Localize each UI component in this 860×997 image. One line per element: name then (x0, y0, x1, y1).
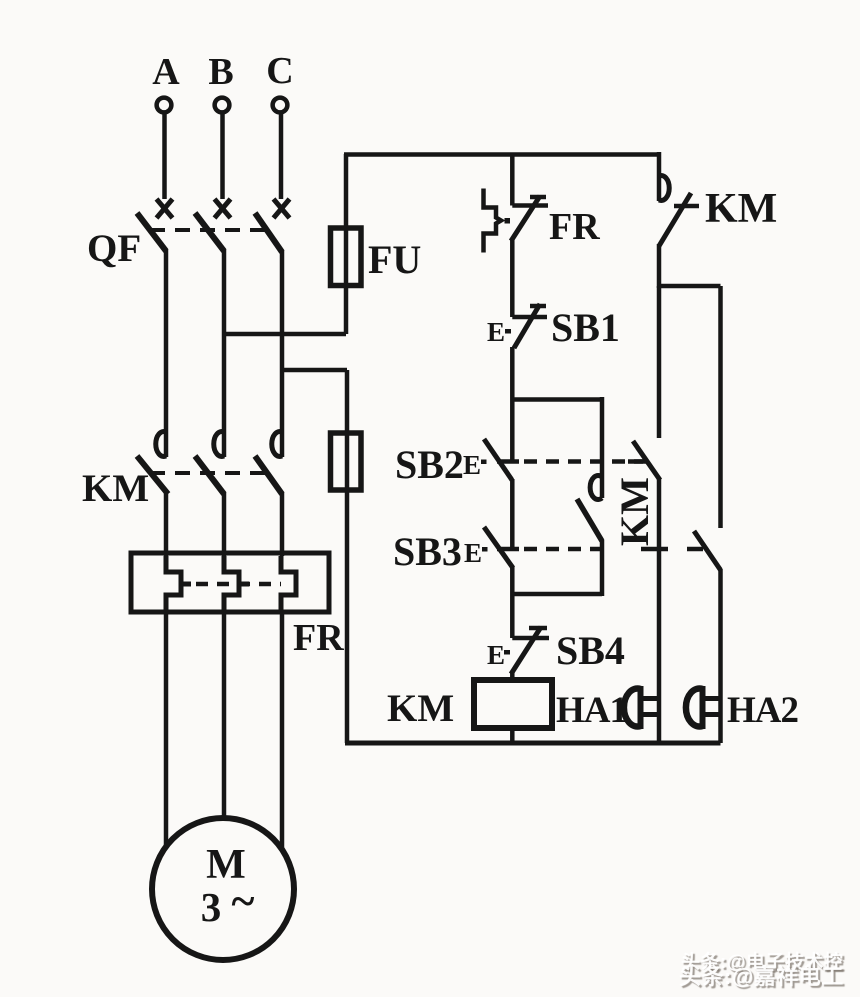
top control rail (344, 152, 659, 157)
wire KM pole A to FR box (164, 492, 169, 556)
wire FR to motor phase C (280, 612, 285, 848)
svg-text:SB3: SB3 (393, 529, 462, 574)
FR heater element pole A (166, 556, 181, 612)
motor M circle (152, 818, 294, 960)
SB3 mechanical dashed link (524, 547, 612, 552)
svg-text:E: E (487, 640, 505, 670)
blade tick (529, 626, 547, 631)
svg-text:SB1: SB1 (551, 305, 620, 350)
KM main contact hook pole A (156, 432, 166, 457)
terminal B circle (215, 98, 230, 113)
svg-text:3: 3 (201, 884, 222, 930)
wire SB3 to SB4 (510, 567, 515, 638)
blade (511, 627, 541, 674)
svg-text:FR: FR (549, 206, 600, 248)
watermark line 2 (679, 959, 844, 991)
svg-text:SB2: SB2 (395, 442, 464, 487)
FU fuse box (331, 228, 362, 286)
wire KM pole B to FR box (222, 492, 227, 556)
KM no.1 contact top right: wire from rail (657, 152, 662, 201)
SB4 button (NC) (487, 627, 549, 674)
blade tick (530, 195, 546, 200)
wire B terminal to QF (220, 112, 225, 199)
KM no.1 blade tick (674, 204, 699, 209)
wire FR contact to SB1 (510, 240, 515, 317)
parallel branch right vertical lower (600, 540, 605, 596)
KM mechanical link dashed line (150, 471, 266, 475)
wire KM coil to bottom rail (510, 728, 515, 743)
control fuse box (331, 433, 362, 490)
wire KM pole C to FR box (280, 492, 285, 556)
SB2 start button (NO) (463, 439, 519, 480)
motor label M 3~ (201, 842, 255, 930)
svg-text:B: B (208, 51, 233, 93)
bottom control rail (345, 741, 721, 746)
KM aux blade (branch) (577, 499, 602, 541)
SB3 link crossing solid segment (641, 547, 668, 552)
wire A terminal to QF (162, 112, 167, 199)
svg-text:C: C (266, 50, 293, 92)
wire x659 down to KM no.2 (657, 286, 662, 438)
wire QF pole B down to KM (222, 249, 227, 457)
blade (511, 196, 540, 241)
KM no.3 blade (694, 531, 721, 570)
svg-text:~: ~ (232, 877, 255, 926)
FR thermal overload box (131, 553, 329, 612)
wire FR to motor phase B (222, 612, 227, 820)
KM main blade pole C (255, 456, 282, 494)
watermark line 1 (681, 947, 843, 974)
SB3 button (NO) (464, 527, 519, 568)
svg-text:SB4: SB4 (556, 628, 625, 673)
terminal A circle (157, 98, 172, 113)
wire C terminal to QF (279, 112, 284, 199)
FR control contact (NC) (484, 189, 549, 253)
svg-text:E: E (487, 317, 505, 347)
seat tick (497, 459, 519, 464)
HA2 bell (686, 686, 720, 729)
svg-text:E: E (463, 450, 481, 480)
blade tick (530, 304, 546, 309)
FU fuse wire from top rail (344, 154, 349, 334)
QF blade pole C (255, 213, 282, 252)
HA1 bell (624, 686, 659, 729)
wire QF pole C down to KM (280, 250, 285, 457)
wire KM no.1 to jog (657, 244, 662, 288)
FR heater element pole C (281, 556, 296, 612)
parallel branch top wire (512, 397, 602, 402)
wire tap phase B to FU (control feed) (224, 332, 346, 337)
svg-text:KM: KM (612, 477, 657, 546)
thermal release bracket (484, 189, 502, 253)
terminal C circle (273, 98, 288, 113)
QF blade pole A (137, 213, 166, 251)
KM main contact hook pole B (214, 432, 224, 457)
SB2 mechanical dashed link (524, 459, 648, 464)
wire SB2 to SB3 (510, 479, 515, 549)
wire QF pole A down to KM (164, 249, 169, 457)
svg-text:HA2: HA2 (727, 690, 798, 731)
wire tap phase C to control fuse (282, 368, 347, 373)
seat tick (497, 547, 519, 552)
svg-text:KM: KM (387, 687, 454, 730)
QF blade pole B (195, 213, 224, 251)
QF mechanical link dashed line (150, 228, 266, 232)
wire KM no.2 down to HA1 (657, 479, 662, 743)
seat (512, 203, 548, 208)
KM no.2 blade (633, 441, 660, 480)
wire SB1 to branch top (510, 347, 515, 462)
svg-text:E: E (464, 538, 482, 568)
breaker cross mark pole A (157, 199, 173, 218)
KM no.1 hook (659, 176, 669, 201)
KM main blade pole B (195, 456, 224, 494)
svg-text:FR: FR (293, 617, 344, 659)
KM main blade pole A (137, 456, 168, 494)
KM aux hook (branch) (590, 476, 602, 500)
FR heater mechanical dashed link (196, 582, 281, 587)
svg-text:QF: QF (87, 227, 141, 270)
blade (484, 527, 513, 568)
control branch main vertical upper (510, 154, 515, 206)
svg-text:A: A (152, 51, 180, 93)
KM main contact hook pole C (272, 431, 282, 456)
KM no.2 blade tick (628, 459, 643, 464)
seat (512, 636, 549, 641)
breaker cross mark pole C (274, 199, 290, 218)
KM coil box (474, 680, 552, 728)
svg-text:KM: KM (82, 467, 149, 510)
wire x720 down to KM no.3 (718, 286, 723, 528)
KM no.1 blade (659, 193, 691, 246)
wire SB4 into KM coil (510, 672, 515, 681)
parallel branch right vertical upper (600, 397, 605, 498)
breaker cross mark pole B (215, 199, 231, 218)
blade (484, 439, 512, 480)
jog horizontal wire (659, 284, 721, 289)
wire KM no.3 down to HA2 (718, 569, 723, 743)
SB1 stop button (NC) (487, 304, 547, 348)
svg-text:HA1: HA1 (556, 690, 627, 731)
FR heater element pole B (224, 556, 239, 612)
blade (514, 304, 540, 348)
KM no.3 blade tick (687, 547, 703, 552)
control fuse wire (345, 370, 350, 743)
node A terminal label (152, 50, 293, 93)
wire FR to motor phase A (164, 612, 169, 846)
svg-text:KM: KM (705, 186, 777, 232)
seat (512, 315, 547, 320)
svg-text:FU: FU (368, 237, 421, 282)
parallel branch bottom wire (512, 592, 602, 597)
actuator dot (505, 218, 511, 224)
